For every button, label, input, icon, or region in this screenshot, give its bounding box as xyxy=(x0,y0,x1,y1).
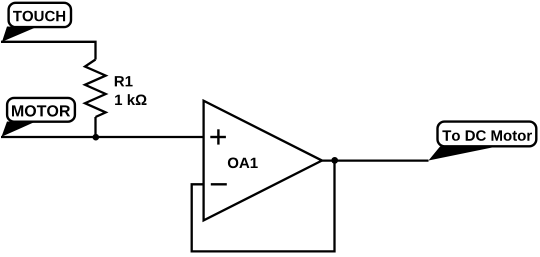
flag To DC Motor box xyxy=(438,122,537,147)
op-amp non-inverting input + symbol xyxy=(210,136,226,138)
op-amp inverting input - symbol xyxy=(211,183,227,185)
flag TOUCH box xyxy=(9,3,71,27)
wire from MOTOR flag to op-amp + input xyxy=(1,136,204,138)
label R1 xyxy=(115,76,133,86)
label TOUCH xyxy=(13,11,65,22)
op-amp OA1 triangle body xyxy=(204,101,322,221)
label To DC Motor xyxy=(442,130,532,141)
flag TOUCH xyxy=(2,3,71,42)
resistor R1 zigzag xyxy=(85,60,106,118)
wire from TOUCH flag to resistor R1 top xyxy=(1,42,96,60)
wire feedback loop from output node to op-amp inverting input xyxy=(192,161,335,252)
label OA1 xyxy=(228,158,258,169)
flag MOTOR box xyxy=(7,98,75,122)
label MOTOR xyxy=(12,105,70,116)
flag MOTOR pointer xyxy=(2,122,35,137)
wire resistor bottom lead xyxy=(94,117,96,137)
resistor R1 xyxy=(85,60,147,118)
flag TOUCH pointer xyxy=(2,27,36,42)
node junction at op-amp output xyxy=(331,157,338,164)
flag To DC Motor xyxy=(429,122,537,161)
wire op-amp output to To DC Motor flag xyxy=(322,159,429,161)
flag To DC Motor pointer xyxy=(429,147,498,161)
node junction at resistor and MOTOR wire xyxy=(93,134,100,141)
op-amp OA1 xyxy=(204,101,322,221)
value 1 kΩ xyxy=(115,94,146,105)
flag MOTOR xyxy=(2,98,75,137)
